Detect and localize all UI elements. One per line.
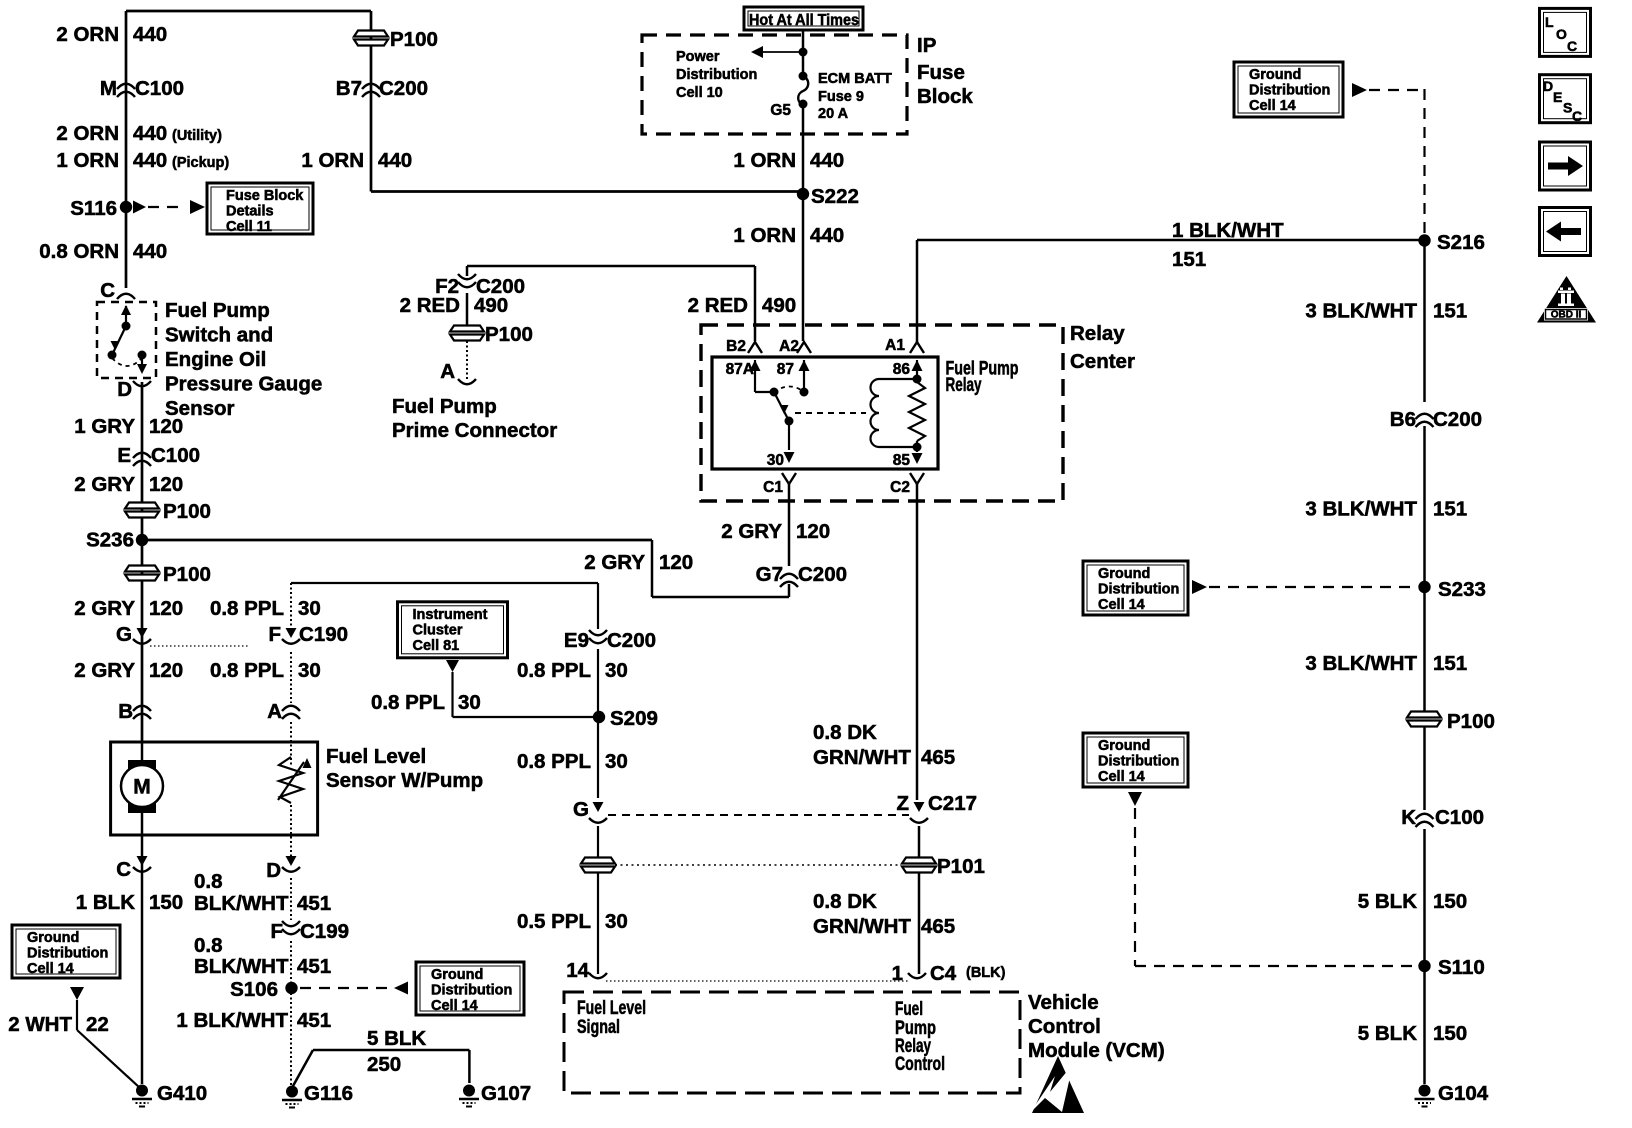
svg-text:Control: Control <box>895 1054 945 1075</box>
svg-text:1 ORN: 1 ORN <box>56 149 119 172</box>
svg-text:120: 120 <box>149 415 183 438</box>
svg-text:Hot At All Times: Hot At All Times <box>749 12 859 29</box>
svg-text:M: M <box>133 776 151 799</box>
svg-text:2 RED: 2 RED <box>400 294 460 317</box>
svg-text:Cell 10: Cell 10 <box>676 85 723 101</box>
svg-text:2 WHT: 2 WHT <box>8 1013 72 1036</box>
svg-text:451: 451 <box>297 1009 331 1032</box>
svg-text:0.8 DK: 0.8 DK <box>813 890 877 913</box>
svg-text:Block: Block <box>917 85 973 108</box>
svg-text:Fuse Block: Fuse Block <box>226 188 304 204</box>
svg-text:S236: S236 <box>86 529 134 552</box>
svg-text:O: O <box>1556 26 1567 42</box>
svg-text:490: 490 <box>474 294 508 317</box>
svg-text:G: G <box>116 623 132 646</box>
svg-text:20 A: 20 A <box>818 106 849 122</box>
svg-text:G116: G116 <box>304 1082 353 1105</box>
svg-text:Ground: Ground <box>27 930 79 946</box>
svg-text:P100: P100 <box>1447 710 1495 733</box>
svg-text:120: 120 <box>149 473 183 496</box>
svg-text:0.8 PPL: 0.8 PPL <box>517 750 591 773</box>
svg-text:Fuel Level: Fuel Level <box>326 745 426 768</box>
svg-text:Fuse 9: Fuse 9 <box>818 89 864 105</box>
svg-text:G5: G5 <box>770 102 791 119</box>
svg-text:1 BLK/WHT: 1 BLK/WHT <box>1172 219 1284 242</box>
svg-text:2 ORN: 2 ORN <box>56 122 119 145</box>
svg-text:30: 30 <box>605 659 628 682</box>
svg-text:Relay: Relay <box>1070 322 1125 345</box>
svg-text:150: 150 <box>1433 890 1467 913</box>
svg-text:L: L <box>1545 14 1554 30</box>
svg-text:151: 151 <box>1172 248 1206 271</box>
svg-text:Power: Power <box>676 49 720 65</box>
svg-text:C100: C100 <box>135 77 184 100</box>
svg-text:Center: Center <box>1070 350 1135 373</box>
svg-text:Distribution: Distribution <box>27 946 108 962</box>
svg-text:S233: S233 <box>1438 578 1486 601</box>
svg-text:B7: B7 <box>336 77 362 100</box>
svg-text:2 GRY: 2 GRY <box>584 551 645 574</box>
svg-text:440: 440 <box>133 240 167 263</box>
svg-text:A: A <box>440 360 455 383</box>
svg-text:0.8 DK: 0.8 DK <box>813 721 877 744</box>
svg-text:Cell 14: Cell 14 <box>431 998 478 1014</box>
svg-text:150: 150 <box>1433 1022 1467 1045</box>
svg-text:440: 440 <box>810 149 844 172</box>
svg-text:Fuel Pump: Fuel Pump <box>392 395 497 418</box>
svg-text:P100: P100 <box>163 500 211 523</box>
svg-text:G: G <box>573 798 589 821</box>
svg-text:D: D <box>117 378 132 401</box>
svg-text:Distribution: Distribution <box>676 67 757 83</box>
svg-text:1 ORN: 1 ORN <box>733 224 796 247</box>
svg-text:14: 14 <box>566 959 589 982</box>
svg-text:1 BLK/WHT: 1 BLK/WHT <box>176 1009 288 1032</box>
svg-text:0.8: 0.8 <box>194 870 223 893</box>
svg-text:BLK/WHT: BLK/WHT <box>194 955 289 978</box>
svg-text:Fuel Pump: Fuel Pump <box>165 299 270 322</box>
svg-text:Distribution: Distribution <box>431 983 512 999</box>
svg-text:0.8 PPL: 0.8 PPL <box>517 659 591 682</box>
svg-text:Fuel Level: Fuel Level <box>577 998 646 1019</box>
svg-text:B2: B2 <box>726 338 746 355</box>
svg-text:87A: 87A <box>726 361 754 378</box>
svg-text:P100: P100 <box>390 28 438 51</box>
svg-text:1 GRY: 1 GRY <box>74 415 135 438</box>
svg-text:Cell 14: Cell 14 <box>1098 597 1145 613</box>
svg-text:87: 87 <box>777 361 794 378</box>
svg-text:P100: P100 <box>485 323 533 346</box>
svg-text:151: 151 <box>1433 498 1467 521</box>
svg-text:490: 490 <box>762 294 796 317</box>
svg-text:C200: C200 <box>798 563 847 586</box>
svg-text:465: 465 <box>921 915 955 938</box>
svg-text:Instrument: Instrument <box>413 607 488 623</box>
svg-text:S209: S209 <box>610 707 658 730</box>
svg-text:F: F <box>268 623 281 646</box>
svg-text:B: B <box>118 700 133 723</box>
svg-text:151: 151 <box>1433 300 1467 323</box>
svg-text:2 GRY: 2 GRY <box>721 520 782 543</box>
svg-text:C190: C190 <box>299 623 348 646</box>
svg-text:Distribution: Distribution <box>1098 754 1179 770</box>
svg-text:Fuel: Fuel <box>895 999 923 1020</box>
svg-text:C200: C200 <box>1433 408 1482 431</box>
svg-text:Cell 81: Cell 81 <box>413 638 460 654</box>
svg-text:(BLK): (BLK) <box>966 965 1006 981</box>
svg-text:Cell 14: Cell 14 <box>1098 769 1145 785</box>
svg-text:30: 30 <box>298 659 321 682</box>
svg-text:86: 86 <box>893 361 911 378</box>
svg-text:30: 30 <box>605 750 628 773</box>
svg-text:A2: A2 <box>779 338 799 355</box>
svg-text:F: F <box>270 920 283 943</box>
svg-text:(Pickup): (Pickup) <box>172 155 229 171</box>
svg-text:3 BLK/WHT: 3 BLK/WHT <box>1305 498 1417 521</box>
svg-text:120: 120 <box>796 520 830 543</box>
svg-text:P101: P101 <box>937 855 985 878</box>
svg-text:440: 440 <box>378 149 412 172</box>
svg-text:S110: S110 <box>1438 956 1485 979</box>
svg-text:Switch and: Switch and <box>165 324 273 347</box>
svg-text:Prime Connector: Prime Connector <box>392 419 557 442</box>
svg-text:G104: G104 <box>1438 1082 1489 1105</box>
svg-text:C1: C1 <box>763 479 783 496</box>
svg-text:440: 440 <box>133 23 167 46</box>
svg-text:BLK/WHT: BLK/WHT <box>194 892 289 915</box>
svg-text:C4: C4 <box>930 962 957 985</box>
svg-text:1 ORN: 1 ORN <box>733 149 796 172</box>
svg-text:D: D <box>1543 78 1553 94</box>
svg-text:0.8 PPL: 0.8 PPL <box>210 659 284 682</box>
svg-text:Engine Oil: Engine Oil <box>165 348 266 371</box>
svg-text:G410: G410 <box>157 1082 207 1105</box>
svg-text:S216: S216 <box>1437 231 1485 254</box>
svg-text:Ground: Ground <box>1098 566 1150 582</box>
svg-text:C: C <box>1567 38 1577 54</box>
svg-text:250: 250 <box>367 1053 401 1076</box>
svg-text:0.8 PPL: 0.8 PPL <box>371 691 445 714</box>
svg-text:OBD II: OBD II <box>1551 310 1582 321</box>
svg-text:120: 120 <box>659 551 693 574</box>
svg-text:D: D <box>266 859 281 882</box>
svg-text:5 BLK: 5 BLK <box>367 1027 426 1050</box>
svg-text:451: 451 <box>297 955 331 978</box>
svg-text:Cell 11: Cell 11 <box>226 219 272 235</box>
svg-text:Relay: Relay <box>946 374 982 396</box>
svg-text:S116: S116 <box>70 197 117 220</box>
svg-text:Details: Details <box>226 204 274 220</box>
svg-text:S106: S106 <box>230 978 278 1001</box>
svg-text:2 GRY: 2 GRY <box>74 597 135 620</box>
svg-text:30: 30 <box>605 910 628 933</box>
svg-text:C100: C100 <box>1435 806 1484 829</box>
svg-text:30: 30 <box>458 691 481 714</box>
svg-text:C199: C199 <box>300 920 349 943</box>
svg-text:465: 465 <box>921 746 955 769</box>
svg-text:G7: G7 <box>756 563 783 586</box>
svg-text:3 BLK/WHT: 3 BLK/WHT <box>1305 652 1417 675</box>
svg-text:Sensor W/Pump: Sensor W/Pump <box>326 769 483 792</box>
svg-text:S222: S222 <box>811 185 859 208</box>
svg-text:120: 120 <box>149 597 183 620</box>
svg-text:C200: C200 <box>607 629 656 652</box>
svg-text:3 BLK/WHT: 3 BLK/WHT <box>1305 300 1417 323</box>
svg-text:2 GRY: 2 GRY <box>74 473 135 496</box>
svg-text:30: 30 <box>767 452 784 469</box>
svg-text:5 BLK: 5 BLK <box>1358 1022 1417 1045</box>
svg-text:Ground: Ground <box>1249 67 1301 83</box>
svg-text:C: C <box>1572 108 1582 124</box>
svg-text:P100: P100 <box>163 563 211 586</box>
svg-text:0.8 PPL: 0.8 PPL <box>210 597 284 620</box>
svg-text:1 BLK: 1 BLK <box>76 891 135 914</box>
svg-text:1 ORN: 1 ORN <box>301 149 364 172</box>
svg-text:Cell 14: Cell 14 <box>27 961 74 977</box>
svg-text:2 ORN: 2 ORN <box>56 23 119 46</box>
svg-text:Cell 14: Cell 14 <box>1249 98 1296 114</box>
svg-text:ECM BATT: ECM BATT <box>818 71 892 87</box>
svg-text:GRN/WHT: GRN/WHT <box>813 746 911 769</box>
svg-text:451: 451 <box>297 892 331 915</box>
svg-text:440: 440 <box>133 122 167 145</box>
svg-text:E: E <box>117 444 131 467</box>
svg-text:440: 440 <box>810 224 844 247</box>
svg-text:120: 120 <box>149 659 183 682</box>
svg-text:Z: Z <box>896 792 909 815</box>
svg-text:GRN/WHT: GRN/WHT <box>813 915 911 938</box>
svg-text:Signal: Signal <box>577 1017 620 1038</box>
svg-text:S: S <box>1563 100 1572 116</box>
svg-text:E9: E9 <box>564 629 589 652</box>
svg-text:A1: A1 <box>885 337 905 354</box>
svg-text:22: 22 <box>86 1013 109 1036</box>
svg-text:K: K <box>1401 806 1416 829</box>
svg-text:C: C <box>100 279 115 302</box>
svg-text:30: 30 <box>298 597 321 620</box>
svg-text:B6: B6 <box>1390 408 1416 431</box>
svg-text:M: M <box>100 77 117 100</box>
svg-text:Ground: Ground <box>1098 738 1150 754</box>
svg-text:Distribution: Distribution <box>1249 83 1330 99</box>
svg-text:Vehicle: Vehicle <box>1028 991 1099 1014</box>
svg-text:1: 1 <box>892 962 903 985</box>
svg-text:2 RED: 2 RED <box>688 294 748 317</box>
svg-text:0.8 ORN: 0.8 ORN <box>39 240 119 263</box>
svg-text:Ground: Ground <box>431 967 483 983</box>
svg-text:Fuse: Fuse <box>917 61 965 84</box>
svg-text:Pressure Gauge: Pressure Gauge <box>165 373 322 396</box>
svg-text:A: A <box>267 700 282 723</box>
svg-text:E: E <box>1553 89 1562 105</box>
svg-text:0.5 PPL: 0.5 PPL <box>517 910 591 933</box>
svg-text:150: 150 <box>149 891 183 914</box>
svg-text:C: C <box>116 858 131 881</box>
svg-text:C100: C100 <box>151 444 200 467</box>
svg-text:Cluster: Cluster <box>413 622 463 638</box>
svg-text:2 GRY: 2 GRY <box>74 659 135 682</box>
svg-text:C217: C217 <box>928 792 977 815</box>
svg-text:(Utility): (Utility) <box>172 128 222 144</box>
svg-text:Module (VCM): Module (VCM) <box>1028 1039 1165 1062</box>
svg-text:Control: Control <box>1028 1015 1101 1038</box>
svg-text:0.8: 0.8 <box>194 934 223 957</box>
svg-text:5 BLK: 5 BLK <box>1358 890 1417 913</box>
svg-text:440: 440 <box>133 149 167 172</box>
svg-text:151: 151 <box>1433 652 1467 675</box>
svg-text:85: 85 <box>893 452 911 469</box>
svg-text:G107: G107 <box>481 1082 531 1105</box>
svg-text:IP: IP <box>917 34 936 57</box>
svg-text:C2: C2 <box>890 479 910 496</box>
svg-text:C200: C200 <box>379 77 428 100</box>
svg-text:Distribution: Distribution <box>1098 582 1179 598</box>
